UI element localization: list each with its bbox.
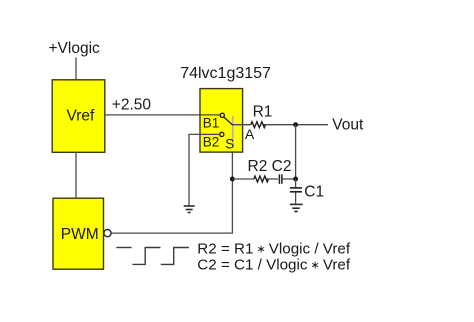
svg-text:A: A [245,126,255,142]
resistor R2 [254,176,269,182]
block Vref [52,80,105,153]
svg-text:B2: B2 [203,134,220,149]
svg-text:C2 = C1 / Vlogic ∗ Vref: C2 = C1 / Vlogic ∗ Vref [197,257,351,274]
wire +Vlogic to Vref [75,58,77,81]
svg-text:C1: C1 [304,184,324,201]
svg-text:S: S [225,137,234,152]
wire Vout node down to RC node [295,125,297,179]
resistor R1 [251,122,266,128]
svg-text:74lvc1g3157: 74lvc1g3157 [180,65,271,82]
node RC junction [293,177,298,182]
wire C2 to Vout branch node [283,178,296,180]
svg-text:R2 = R1 ∗ Vlogic / Vref: R2 = R1 ∗ Vlogic / Vref [197,241,351,258]
wire A output from switch to R1 [233,124,251,126]
wire R2 to C2 [267,178,279,180]
svg-text:Vref: Vref [67,107,96,124]
svg-text:R1: R1 [253,104,273,121]
svg-text:PWM: PWM [61,226,99,243]
wire PWM to S [111,141,232,233]
node S/R2 junction [230,177,235,182]
wire Vref to B1 (+2.50 net) [105,114,220,116]
pin PWM output terminal (open circle) [104,230,111,237]
capacitor C2 [279,174,282,184]
wire R1 to Vout node [264,124,329,126]
wire S node to R2 [232,178,253,180]
wire B2 to ground [189,134,220,205]
op-amp U1 74lvc1g3157 mux body [200,89,243,153]
pin B2 contact [220,132,224,136]
svg-text:R2 C2: R2 C2 [248,158,292,175]
wire into B1 inside box [200,114,220,116]
svg-text:+2.50: +2.50 [112,96,152,113]
capacitor C1 [290,179,302,204]
pin B1 contact [220,113,224,117]
svg-text:+Vlogic: +Vlogic [49,40,101,57]
ground at C1 [290,204,303,211]
ground at B2 [184,206,195,213]
block PWM [53,198,104,269]
switch lever B1 to common [224,117,233,125]
PWM waveform sketch [116,248,189,265]
svg-text:B1: B1 [203,116,220,131]
wire Vref to PWM [75,152,77,198]
node Vout junction [293,122,298,127]
svg-text:Vout: Vout [332,116,364,133]
switch pole bar (gray) [232,116,234,146]
